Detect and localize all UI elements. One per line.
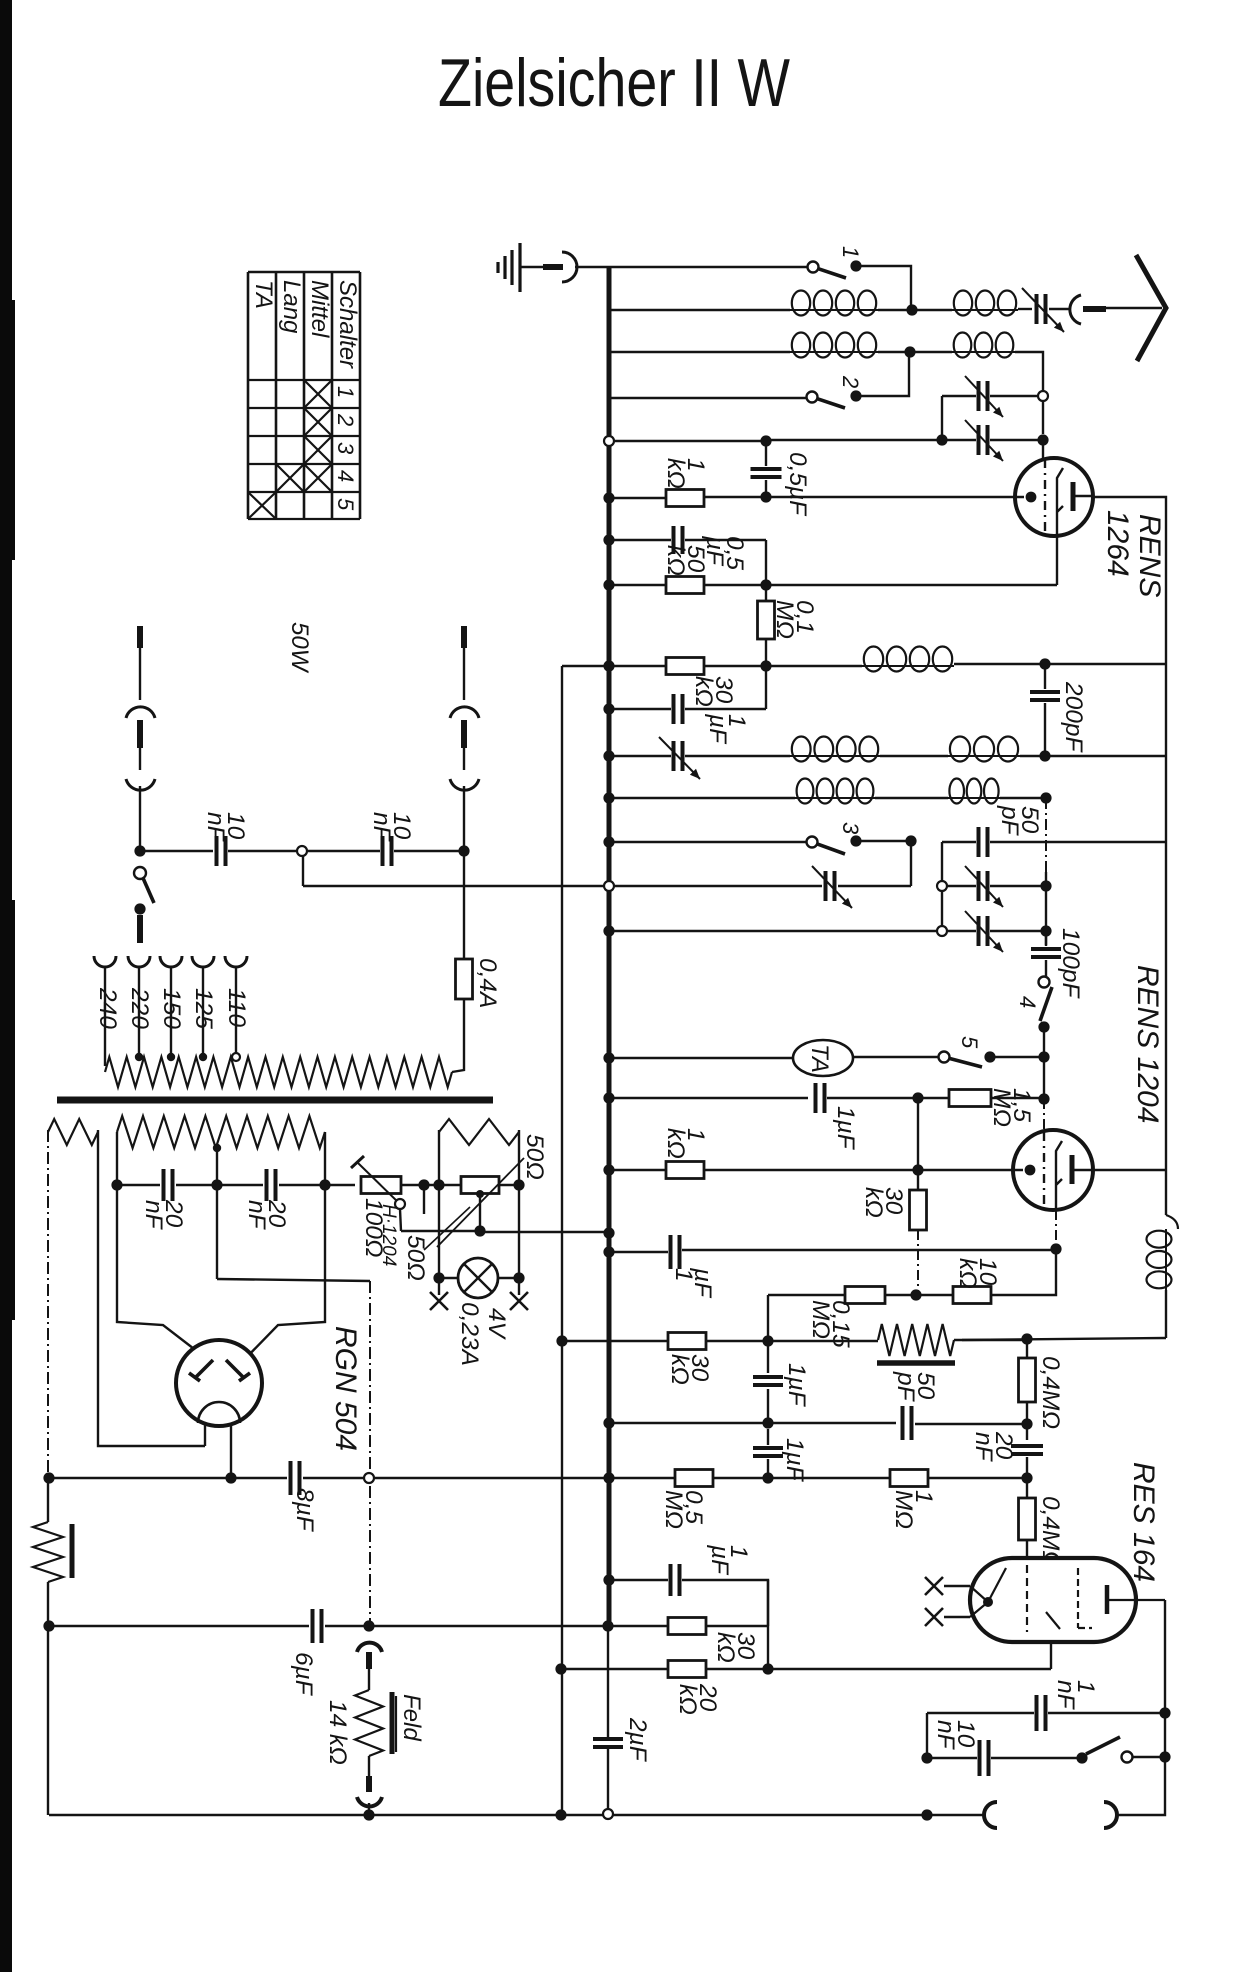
junction x48 row 1626 (43, 1620, 54, 1631)
wire gang rail to 1,5M row (1043, 1057, 1045, 1099)
wire cathode to 10k (991, 1249, 1056, 1295)
junction RGN cathode (225, 1472, 236, 1483)
capacitor 1 nF (1037, 1695, 1046, 1731)
terminal x370 row 1478 (364, 1473, 374, 1483)
trimmer capacitor C t1 (979, 381, 988, 411)
cathode hook RES 164 (1046, 1612, 1060, 1629)
junction lamp left (433, 1272, 444, 1283)
wire bus row 931 (609, 930, 937, 932)
tap junction (199, 1053, 207, 1061)
wire TA to switch 5 (853, 1056, 944, 1058)
svg-text:10nF: 10nF (932, 1720, 979, 1751)
mains switch (134, 867, 146, 879)
svg-text:50pF: 50pF (892, 1371, 939, 1403)
junction mains switch contact (134, 903, 145, 914)
junction gang rail top (1040, 792, 1051, 803)
junction switch 3 contact (850, 835, 861, 846)
voltage selector jack cups (94, 956, 116, 967)
HT rail below coil (1165, 1290, 1167, 1338)
junction bus 50k row (603, 579, 614, 590)
X terminal lamp right (510, 1292, 528, 1310)
anode wire RENS1204 to rail (1092, 1169, 1166, 1171)
wire trimmer to jack (1049, 308, 1069, 310)
coil L5 anode (862, 665, 954, 667)
wire rail corner to 0,4M row (962, 1338, 1166, 1340)
wire center tap down (216, 1148, 218, 1185)
resistor 0,4 MOhm upper (1026, 1339, 1028, 1358)
switch 1 (808, 262, 819, 273)
junction x911 (905, 835, 916, 846)
wire bus to R 1k (609, 497, 666, 499)
svg-text:110: 110 (223, 988, 250, 1027)
wire long row 886 from left (303, 885, 604, 887)
junction 50ohm left (433, 1179, 444, 1190)
svg-text:4V: 4V (483, 1308, 510, 1341)
wire L7 to HT rail (1020, 755, 1166, 757)
wire pin to antenna (1106, 307, 1162, 309)
svg-text:30kΩ: 30kΩ (860, 1187, 907, 1218)
junction bus 1kOhm row (603, 492, 614, 503)
junction bus row 756 (603, 750, 614, 761)
wire R1k to grid 1204 (704, 1169, 1023, 1171)
terminal bus bottom (603, 1809, 613, 1819)
svg-text:5: 5 (333, 498, 358, 511)
tone switch (1086, 1737, 1120, 1754)
speaker jack right (1104, 1802, 1117, 1828)
junction speaker jack left (921, 1809, 932, 1820)
grid connection dot RENS1204 (1025, 1165, 1036, 1176)
svg-text:8µF: 8µF (291, 1488, 318, 1533)
wire L2 to trimmer (1018, 308, 1032, 310)
speaker jack left (984, 1802, 997, 1828)
capacitor 20nF a (164, 1169, 173, 1201)
svg-text:2: 2 (333, 413, 358, 426)
wire X to tube (944, 1585, 970, 1587)
potentiometer 100 Ohm H-1204 (361, 1177, 401, 1194)
junction bus cathode row (603, 1246, 614, 1257)
wire bus to switch 2 (609, 397, 812, 399)
svg-text:20nF: 20nF (243, 1199, 290, 1231)
wire 50pF feedback row (942, 841, 976, 843)
arrow trimmer t2 (965, 420, 1003, 461)
wire coil to HT rail (954, 663, 1166, 665)
wire cathode RENS1264 down (1056, 534, 1058, 585)
junction x562 20k row (555, 1663, 566, 1674)
wire 20nF down (1026, 1457, 1028, 1478)
capacitor 100 pF (vertical on rail) (1045, 931, 1047, 946)
coil output (vertical, on HT rail) (1166, 1215, 1178, 1229)
resistor 30 kOhm (vertical) (917, 1170, 919, 1191)
anode bar RENS 1264 (1071, 482, 1076, 511)
wire C to 1,5M (827, 1097, 918, 1099)
wire row 1423 (609, 1422, 896, 1424)
gang rail solid part (1045, 872, 1047, 945)
svg-text:10nF: 10nF (368, 812, 415, 843)
grid (dash) RENS 1264 (1044, 459, 1046, 535)
jack arc (ground lead) (562, 252, 577, 282)
coil L7 (948, 755, 1020, 757)
junction bus 30k row (603, 660, 614, 671)
svg-text:1µF: 1µF (832, 1106, 859, 1151)
table X marks row3 Mittel (305, 437, 331, 463)
resistor 20 kOhm (668, 1661, 706, 1678)
svg-text:H·1204: H·1204 (378, 1204, 399, 1266)
capacitor 50 pF (979, 827, 988, 857)
wire center tap chain down (216, 1190, 218, 1279)
svg-text:1: 1 (333, 386, 358, 398)
arrow 50 Ohm pot (437, 1158, 524, 1247)
bottom return wire (49, 1814, 927, 1816)
wire L8 to L9 (875, 797, 948, 799)
junction 10k 0,15M (910, 1289, 921, 1300)
capacitor 8uF (291, 1461, 300, 1495)
wire 50 Ohm box to rail (499, 1184, 519, 1186)
coil L1 (790, 309, 878, 311)
junction cathode row (1050, 1243, 1061, 1254)
junction hum tap row (474, 1225, 485, 1236)
junction stub (418, 1179, 429, 1190)
wire L1 to L2 (878, 309, 952, 311)
table X marks row2 Mittel (305, 409, 331, 435)
lamp rail end right (518, 1278, 520, 1295)
wire bus to R1k 1204 (609, 1169, 666, 1171)
svg-text:Schalter: Schalter (334, 280, 361, 369)
wire C1uF to cathode junction (682, 1249, 1056, 1251)
terminal row 931 (937, 926, 947, 936)
transformer core bar (57, 1097, 493, 1104)
junction bus row 540 (603, 534, 614, 545)
grid (dash) RENS 1204 (1043, 1132, 1045, 1208)
wire R1k to grid (704, 496, 1024, 498)
junction 10nF row left (134, 845, 145, 856)
variable capacitor row 931 (979, 916, 988, 946)
tube RENS 1264 (1015, 458, 1093, 536)
wire 50k row to cathode (704, 584, 1057, 586)
svg-text:2: 2 (838, 375, 863, 388)
tube RENS 1204 (1013, 1130, 1093, 1210)
junction 50k row (760, 579, 771, 590)
junction tone switch contact (1076, 1752, 1087, 1763)
junction bus 1uF row 1098 (603, 1092, 614, 1103)
terminal on grid rail (1038, 391, 1048, 401)
variable capacitor C row886b (979, 871, 988, 901)
junction 10nF row right (458, 845, 469, 856)
bar of 50pF capacitor (877, 1360, 955, 1366)
gang rail (dash-dot) (1045, 798, 1047, 872)
row 851 with 10nF caps (140, 850, 213, 852)
plug pin (antenna) (1083, 306, 1106, 312)
junction 30k chain top (912, 1164, 923, 1175)
resistor 30 kOhm (666, 658, 704, 675)
switch 3 (807, 837, 818, 848)
svg-text:3: 3 (838, 822, 863, 835)
wire hum row to bus (480, 1231, 604, 1233)
anode wire RENS1264 to HT rail (1092, 497, 1166, 1215)
wire bus to C1uF (609, 708, 671, 710)
wire 0,15M row (768, 1294, 845, 1296)
wiper terminal 100 Ohm (395, 1199, 405, 1209)
rail x370 (dash-dot) (369, 1281, 371, 1470)
rail to lamp left (438, 1185, 440, 1278)
junction antenna row (906, 304, 917, 315)
junction row1185 left (111, 1179, 122, 1190)
wire L9 to gang rail (1000, 797, 1046, 799)
wire bus to C1uF cathode (609, 1251, 668, 1253)
resistor 1,5 MOhm (949, 1090, 991, 1107)
potentiometer 50 Ohm (461, 1177, 499, 1194)
svg-text:20nF: 20nF (140, 1199, 187, 1231)
wire rail x942 (941, 842, 943, 931)
wire bus to 1uF row1580 (609, 1579, 668, 1581)
anode bar RENS 1204 (1070, 1155, 1075, 1184)
resistor 14 kOhm Feld winding (355, 1690, 383, 1756)
wire varcap row 931 (990, 930, 1046, 932)
capacitor 0,5uF (vertical) (765, 446, 767, 466)
trimmer capacitor row 756 (674, 741, 683, 771)
junction bus row 1580 (603, 1574, 614, 1585)
junction bus row 1478 (603, 1472, 614, 1483)
wire trimmer row 396 (942, 395, 976, 397)
wire bus to trimmer (609, 755, 671, 757)
svg-text:0,5µF: 0,5µF (784, 452, 811, 517)
wire bus to R 50k (609, 584, 666, 586)
svg-text:220: 220 (126, 987, 153, 1029)
table X marks row4 Mittel (305, 465, 331, 491)
wire x98 filament return (98, 1130, 205, 1446)
main vertical bus (lower thin) (607, 1626, 609, 1739)
screen grid (dash) RES 164 (1078, 1568, 1092, 1628)
svg-text:50W: 50W (286, 622, 313, 674)
wire up to 30k row (765, 666, 767, 709)
wire L4 down to grid rail (1015, 352, 1043, 391)
left rail to bottom (47, 1626, 49, 1815)
X filament terminal 2 (925, 1608, 943, 1626)
grid connection dot RENS1264 (1026, 492, 1037, 503)
svg-text:50Ω: 50Ω (402, 1235, 429, 1281)
svg-text:10kΩ: 10kΩ (954, 1258, 1001, 1289)
junction 10nF row (921, 1752, 932, 1763)
wire bus to switch 1 (609, 266, 813, 268)
jack arc (antenna) (1070, 295, 1081, 324)
capacitor 6uF (313, 1609, 322, 1643)
transformer primary winding (105, 1057, 452, 1087)
junction switch 1 contact (850, 260, 861, 271)
junction x768 row 1669 (762, 1663, 773, 1674)
resistor 10 kOhm (953, 1287, 991, 1304)
table X marks row5 TA (249, 493, 275, 518)
svg-text:30kΩ: 30kΩ (666, 1354, 713, 1385)
grid lead RENS1204 (dash-dot) (1043, 1099, 1045, 1132)
resistor 1 MOhm (890, 1470, 928, 1487)
wire bus to R 30k (609, 665, 666, 667)
junction 0,5uF bottom (760, 491, 771, 502)
wire L3 to L4 (878, 351, 952, 353)
junction x48 row 1478 (43, 1472, 54, 1483)
capacitor 1uF (x768 upper) (767, 1341, 769, 1373)
wire L6 to L7 (880, 755, 948, 757)
junction rail tone row (1159, 1751, 1170, 1762)
junction x768 row 1478 (762, 1472, 773, 1483)
wire X2 to tube (944, 1616, 970, 1618)
junction grid rail row 440 (1037, 434, 1048, 445)
wire switch5 to rail (990, 1056, 1044, 1058)
capacitor 10 nF (980, 1740, 989, 1776)
anode bar RES 164 (1105, 1585, 1110, 1614)
capacitor 0,5uF-2 (674, 526, 683, 554)
svg-text:1264: 1264 (1101, 510, 1134, 577)
wire 30k to 50pF resistor (706, 1340, 878, 1342)
filament arc RGN504 (198, 1402, 240, 1423)
wire plug to bus (575, 266, 609, 268)
tap junction (135, 1053, 143, 1061)
arrow trimmer t1 (965, 376, 1003, 417)
junction 200pF bottom (1039, 750, 1050, 761)
junction Feld bottom (363, 1809, 374, 1820)
svg-text:0,23A: 0,23A (456, 1302, 483, 1366)
svg-text:0,1MΩ: 0,1MΩ (771, 600, 818, 639)
wire bus to C 0,5uF (614, 440, 766, 442)
trimmer capacitor C t2 (979, 425, 988, 455)
svg-text:10nF: 10nF (202, 812, 249, 843)
cathode lead RENS1204 (dash-dot) (1055, 1210, 1057, 1245)
wire 30k row 1341 (562, 1340, 668, 1342)
wire bus to L8 (609, 797, 795, 799)
wire to trimmer t2 (766, 439, 942, 441)
wire bus to switch 3 (609, 841, 812, 843)
capacitor 20 nF (1011, 1446, 1043, 1454)
table X marks row4 Lang (277, 465, 303, 491)
wire corner x562 top (562, 665, 609, 667)
svg-text:20nF: 20nF (970, 1431, 1017, 1463)
filament leads RGN504 (204, 1424, 206, 1446)
row 1626 (6uF / 30k row) (49, 1625, 309, 1627)
junction 0,4M mid (1021, 1418, 1032, 1429)
filament winding a (48, 1119, 98, 1145)
rectifier tube RGN 504 (176, 1340, 262, 1426)
svg-text:Mittel: Mittel (306, 280, 333, 338)
arrow varcap row 886 (812, 866, 852, 908)
anode rail RES164 (1118, 1600, 1165, 1815)
svg-text:30kΩ: 30kΩ (712, 1632, 759, 1663)
wire trimmer left rail (941, 396, 943, 440)
variable capacitor antenna (1037, 294, 1046, 324)
wire trimmer to L6 (685, 755, 790, 757)
junction gang rail row 931 (1040, 925, 1051, 936)
HV secondary winding (117, 1116, 325, 1148)
junction 1M row right (1021, 1472, 1032, 1483)
wire bus to C1uF row1098 (609, 1097, 808, 1099)
wire varcap2 row 886 (990, 885, 1046, 887)
svg-text:50kΩ: 50kΩ (662, 545, 709, 576)
svg-text:RENS 1204: RENS 1204 (1131, 965, 1164, 1123)
terminal bus row 440 (604, 436, 614, 446)
main vertical bus (thick) (607, 267, 612, 1626)
capacitor 50 pF row 1423 (903, 1406, 912, 1440)
coil L2 (952, 309, 1018, 311)
junction x768 row 1423 (762, 1417, 773, 1428)
coil L6 (790, 755, 880, 757)
cathode RENS 1204 (1056, 1141, 1062, 1209)
wire 1nF row (927, 1712, 1034, 1714)
wire 0,15M to 10k (885, 1294, 953, 1296)
junction L3 L4 (904, 346, 915, 357)
grid rail segment (1042, 401, 1044, 434)
wire switch4 down (1043, 1027, 1045, 1057)
capacitor 10nF a (217, 836, 226, 866)
svg-text:30kΩ: 30kΩ (690, 676, 737, 707)
tube RES 164 envelope (970, 1558, 1136, 1642)
wire 1uF to x768 (682, 1580, 768, 1626)
arrow varcap row 931 (965, 911, 1003, 952)
wire x768 upper segment (767, 1295, 769, 1341)
wire bus to coil L1 (609, 309, 790, 311)
rail x48 (dash-dot upper) (47, 1130, 49, 1478)
filament junction RES164 (983, 1597, 993, 1607)
fuse 0,4 A (456, 959, 473, 999)
resistor 0,5 MOhm (675, 1470, 713, 1487)
svg-text:100pF: 100pF (1057, 928, 1084, 1000)
arrow varcap row 886b (965, 866, 1003, 907)
coil L8 (795, 797, 875, 799)
svg-text:1: 1 (838, 246, 863, 258)
wire down to 50k row (765, 540, 767, 585)
tap dot (476, 1190, 484, 1198)
wire 20k row left (561, 1668, 668, 1670)
wire to 10nF (927, 1757, 977, 1759)
resistor 0,4 MOhm lower (1026, 1478, 1028, 1498)
svg-text:0,4A: 0,4A (474, 958, 501, 1008)
wire ground to plug (520, 266, 545, 268)
junction 50ohm right (513, 1179, 524, 1190)
variable capacitor row 886 (826, 871, 835, 901)
wire zigzag to 0,4M chain (954, 1339, 1027, 1341)
svg-text:RES 164: RES 164 (1127, 1462, 1160, 1582)
capacitor 1uF row 1098 (816, 1083, 825, 1113)
wire 0,5M to 1M (713, 1477, 890, 1479)
cathode lead RES164 (1050, 1642, 1052, 1669)
junction 0,4M top (1021, 1333, 1032, 1344)
junction switch4 contact (1038, 1021, 1049, 1032)
wire wiper down (400, 1209, 401, 1231)
svg-text:14 kΩ: 14 kΩ (324, 1700, 351, 1765)
junction grid leak (912, 1092, 923, 1103)
junction gang rail row 886 (1040, 880, 1051, 891)
junction rail 1nF (1159, 1707, 1170, 1718)
svg-text:Feld: Feld (398, 1694, 425, 1741)
svg-text:150: 150 (158, 988, 185, 1029)
rail 50ohm left (438, 1130, 440, 1185)
wire varcap to corner (838, 885, 911, 887)
wire C1uF right (685, 708, 766, 710)
junction bus 1uF row (603, 703, 614, 714)
junction bus row 798 (603, 792, 614, 803)
svg-text:6µF: 6µF (290, 1652, 317, 1697)
resistor (grid leak) with 50pF (878, 1324, 954, 1356)
capacitor 0,5uF plates (751, 469, 782, 477)
switch 4 (1039, 977, 1050, 988)
svg-text:TA: TA (250, 280, 277, 309)
wire switch1 to coil junction (856, 266, 911, 308)
resistor 1 kOhm (1204) (666, 1162, 704, 1179)
junction row 1057 (1038, 1051, 1049, 1062)
wire switch2 up to L3 row (856, 352, 909, 396)
tap wires (104, 967, 106, 1066)
svg-text:125: 125 (190, 988, 217, 1029)
wire wiper row (401, 1230, 480, 1232)
svg-text:240: 240 (94, 987, 121, 1029)
table X marks row1 Mittel (305, 381, 331, 407)
resistor 0,15 MOhm (845, 1287, 885, 1304)
